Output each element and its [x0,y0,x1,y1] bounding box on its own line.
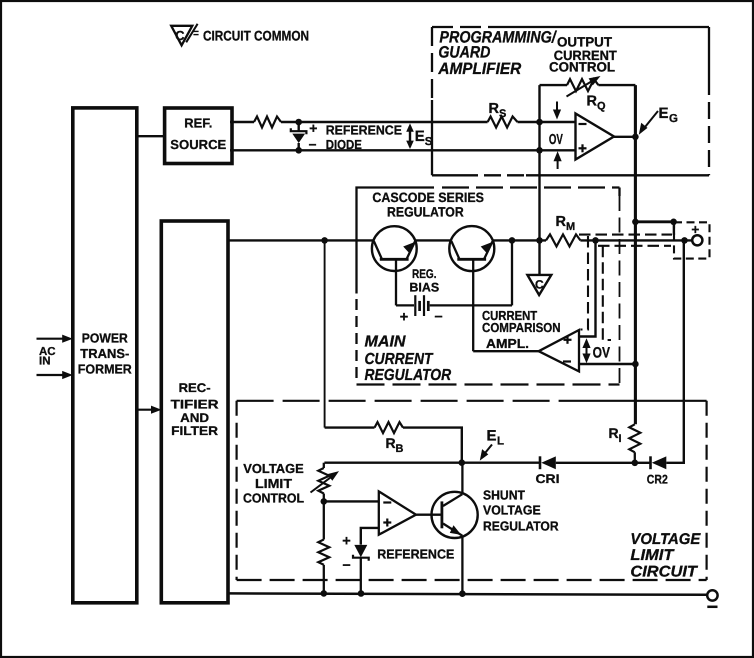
label VOLTAGE LIMIT CIRCUIT [630,531,701,581]
transistor Q2 (cascode) [449,226,494,351]
node rail zener [358,590,365,597]
svg-text:CONTROL: CONTROL [243,491,304,506]
svg-text:FILTER: FILTER [171,424,218,438]
svg-text:OV: OV [593,345,610,362]
resistor RS [488,117,518,128]
svg-text:CASCODE SERIES: CASCODE SERIES [372,190,484,205]
node common branch [536,237,543,244]
wire CR2 up to + branch [666,240,684,462]
svg-text:CONTROL: CONTROL [549,60,615,75]
svg-text:POWER: POWER [82,331,129,346]
svg-text:BIAS: BIAS [409,280,439,294]
svg-text:E: E [487,428,497,445]
svg-text:–: – [343,557,351,573]
reference zener diode (voltage limit) [342,534,368,594]
wire op-amp output [614,136,635,138]
node sense [592,237,599,244]
resistor RM [546,234,580,246]
svg-text:L: L [497,436,504,448]
label EL with arrow [480,428,504,461]
circuit common triangle (mid) [527,275,551,295]
transistor Q3 (shunt voltage regulator) [432,463,478,594]
label EG with arrow [639,105,678,135]
svg-text:TRANS-: TRANS- [80,346,129,361]
wire feedback top [540,84,568,86]
wire RS input [518,121,576,123]
svg-text:+: + [691,222,699,237]
node RB branch [321,237,328,244]
svg-text:G: G [669,113,678,125]
svg-text:+: + [400,310,408,326]
main current regulator dashed box [357,196,620,385]
svg-text:E: E [415,128,425,145]
potentiometer (voltage limit control) [311,463,340,540]
- output terminal [707,590,717,607]
svg-text:AND: AND [180,411,209,425]
node + branch down [681,237,688,244]
wire RI node to CR2 [635,462,651,464]
wire Q2 to RM [493,239,547,241]
wire transformer to ref source [137,135,165,137]
svg-text:SOURCE: SOURCE [170,137,226,152]
svg-text:+: + [309,120,317,136]
svg-text:CURRENT: CURRENT [365,351,434,368]
programming/guard amplifier dashed box [432,27,709,175]
svg-text:REGULATOR: REGULATOR [483,519,559,534]
diode CR2 [651,456,667,469]
svg-text:R: R [587,94,598,110]
label SHUNT VOLTAGE REGULATOR [483,488,559,534]
svg-text:R: R [609,425,619,441]
wire resistor to node [281,121,488,123]
svg-text:AMPLIFIER: AMPLIFIER [437,60,521,78]
svg-text:FORMER: FORMER [78,362,133,377]
cascode box outline (solid part) [357,188,620,294]
svg-text:CIRCUIT COMMON: CIRCUIT COMMON [203,27,309,43]
resistor (voltage limit divider) [318,540,329,565]
node rail emitter [459,590,466,597]
circuit common symbol (top) [171,24,198,46]
svg-text:REC-: REC- [179,381,211,395]
guard shield dashed line (lower) [598,245,671,247]
svg-text:M: M [566,221,575,233]
wire op-amp output to Q3 base [416,514,442,516]
ov double arrow (comparison) [582,338,590,363]
wire op-amp plus input to zener [361,528,379,545]
+ output terminal [691,222,702,246]
ov adjust arrow (up) [554,151,562,169]
wire ref source top (to resistor) [230,121,254,123]
node EG output [632,134,639,141]
wire feedback left vertical / down to common [538,85,540,275]
svg-text:REGULATOR: REGULATOR [387,204,464,219]
node pot wiper [321,498,328,505]
wire comparison output to Q2 base [473,350,539,352]
svg-text:R: R [489,101,500,117]
svg-text:LIMIT: LIMIT [630,547,675,564]
node (zener top) [295,119,302,126]
wire pot to op-amp minus [324,500,379,502]
bottom rail wire [228,593,708,594]
svg-text:+: + [342,534,350,550]
svg-text:VOLTAGE: VOLTAGE [630,531,701,548]
node minus to EG line [632,361,639,368]
label MAIN CURRENT REGULATOR [365,334,452,384]
svg-text:CR2: CR2 [647,473,668,487]
wire EL line [324,462,540,464]
svg-text:REG.: REG. [412,267,437,281]
label OUTPUT CURRENT CONTROL [549,34,618,74]
svg-text:OV: OV [549,132,563,148]
op-amp U1 (guard amplifier) [576,114,615,160]
wire EG vertical line [634,85,637,424]
svg-text:LIMIT: LIMIT [255,476,292,491]
svg-text:R: R [386,435,396,451]
wire guard to shield [635,220,673,223]
ref source block [165,108,232,164]
svg-text:AMPL.: AMPL. [486,336,529,351]
svg-text:COMPARISON: COMPARISON [482,320,561,335]
battery BT (reg bias) [396,240,512,325]
svg-text:B: B [396,443,404,455]
rectifier and filter block [161,221,228,603]
svg-text:VOLTAGE: VOLTAGE [483,503,541,518]
svg-text:R: R [556,214,567,230]
svg-text:IN: IN [39,356,51,368]
label VOLTAGE LIMIT CONTROL [243,461,304,505]
voltage limit circuit dashed box [237,401,707,580]
svg-text:C: C [175,28,185,43]
diode CR1 [540,456,556,469]
wire Q1 to Q2 [415,239,451,241]
svg-text:REF.: REF. [184,116,212,131]
node (zener bottom) [295,147,302,154]
svg-text:Q: Q [597,101,606,113]
svg-text:REFERENCE: REFERENCE [377,547,454,562]
wire comparison minus input to EG line [579,363,635,365]
guard shield dashed box around + terminal [674,222,710,258]
svg-text:CRI: CRI [536,472,560,486]
AC IN arrows [37,335,73,380]
resistor (ref series) [254,117,281,128]
svg-text:REGULATOR: REGULATOR [365,367,452,384]
op-amp U3 (voltage limit) [379,491,416,534]
label CURRENT COMPARISON AMPL. [482,308,561,351]
resistor RI [629,424,640,463]
wire RB to EL node [403,428,462,463]
svg-text:E: E [659,105,669,122]
svg-text:TIFIER: TIFIER [171,397,219,411]
svg-text:GUARD: GUARD [438,44,490,62]
node guard plus input [536,147,543,154]
guard shield dashed line (upper) [579,234,672,236]
guard shield dashed vertical (left of sense wire) [581,236,589,330]
wire main wire down to RB [324,240,326,427]
power transformer block [73,108,137,603]
node battery to main wire [509,237,516,244]
wire current sense to comparison + input [579,240,596,336]
ov adjust arrow (down) [553,102,561,120]
potentiometer RQ [567,76,601,97]
svg-text:CIRCUIT: CIRCUIT [630,563,698,580]
svg-text:–: – [434,309,442,325]
wire RB horizontal [325,426,375,428]
op-amp U2 (current comparison ampl) [539,330,579,371]
node rail divider [321,590,328,597]
resistor RB [375,422,404,433]
wire ref source bottom [230,149,576,151]
transistor Q1 (cascode) [372,226,417,305]
svg-text:I: I [619,433,622,445]
ES measurement arrows [406,123,433,149]
svg-text:S: S [499,108,506,120]
node RI to EL wire [632,460,639,467]
svg-text:VOLTAGE: VOLTAGE [243,461,304,476]
label PROGRAMMING/ GUARD AMPLIFIER [437,29,557,78]
node EL [459,459,466,466]
wire divider to rail [323,565,325,594]
wire RM to + terminal [580,239,692,241]
svg-text:MAIN: MAIN [365,334,406,351]
svg-text:C: C [535,277,544,291]
node guard minus input [536,119,543,126]
reference zener diode CR [291,122,307,150]
wire CR1 to RI node [556,462,635,464]
arrow transformer to rectifier [137,406,162,414]
svg-text:REFERENCE: REFERENCE [326,123,403,138]
guard shield dashed vertical (right of sense wire) [603,246,611,340]
svg-text:SHUNT: SHUNT [483,488,525,503]
main dc wire from rectifier [228,239,374,241]
